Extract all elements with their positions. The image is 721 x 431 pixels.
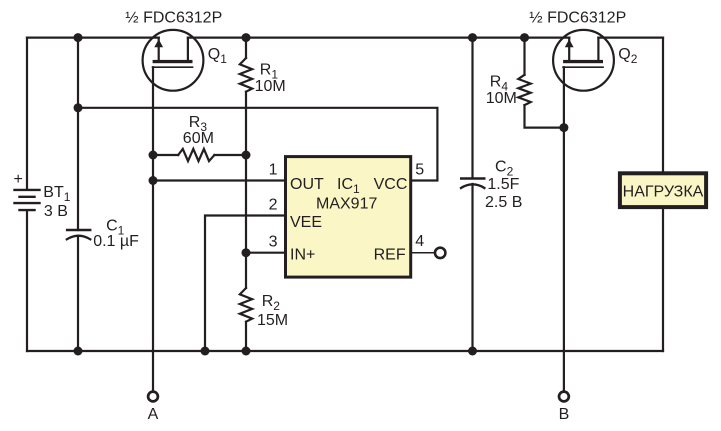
wire VCC feed rail <box>78 108 437 181</box>
transistor Q2 source line <box>568 38 570 60</box>
wire left rail upper <box>26 38 28 190</box>
wire IN+ pin3 <box>246 252 285 254</box>
wire R3 left lead <box>153 154 178 156</box>
svg-text:1: 1 <box>269 162 278 179</box>
svg-text:НАГРУЗКА: НАГРУЗКА <box>623 183 704 200</box>
svg-text:B: B <box>559 406 570 423</box>
wire R1R3 junction down to IN+ <box>245 155 247 253</box>
svg-text:IN+: IN+ <box>290 246 315 263</box>
wire top rail middle segment <box>188 36 569 38</box>
junction R4 Q2 gate <box>559 123 568 132</box>
capacitor C1 top plate <box>67 229 90 232</box>
svg-text:BT1: BT1 <box>43 184 70 204</box>
terminal A circle <box>148 392 158 402</box>
wire bottom rail <box>27 350 663 352</box>
capacitor C1 curved plate <box>67 236 91 240</box>
wire VEE pin2 <box>205 216 285 352</box>
svg-text:2: 2 <box>269 197 278 214</box>
junction bottom rail VEE <box>201 347 210 356</box>
svg-text:REF: REF <box>374 246 406 263</box>
wire load bottom to rail <box>662 209 664 351</box>
wire R1 top lead <box>245 38 247 58</box>
wire top rail right segment <box>598 36 663 38</box>
wire R1 bottom to R3 junction <box>245 92 247 155</box>
wire R2 top lead <box>245 253 247 288</box>
battery BT1 plate1 long <box>15 189 40 191</box>
junction R3 left gate line <box>149 151 158 160</box>
svg-text:60M: 60M <box>183 130 214 147</box>
junction bottom rail R2 <box>242 347 251 356</box>
battery BT1 plate3 long <box>15 202 40 204</box>
wire OUT pin1 <box>153 179 285 181</box>
junction bottom rail C2 <box>468 347 477 356</box>
svg-text:½ FDC6312P: ½ FDC6312P <box>125 10 222 27</box>
wire C2 column lower <box>471 184 473 351</box>
transistor Q2 body circle <box>553 30 614 91</box>
transistor Q1 body circle <box>143 30 204 91</box>
transistor Q2 drain line <box>597 38 599 60</box>
svg-text:3 В: 3 В <box>44 203 68 220</box>
resistor R4 <box>518 75 530 105</box>
terminal B circle <box>559 392 569 402</box>
wire Q2 gate drop to B <box>563 67 565 391</box>
transistor Q1 gate line <box>153 66 193 68</box>
svg-text:2.5 В: 2.5 В <box>485 194 522 211</box>
junction OUT gate line <box>149 176 158 185</box>
wire right drop to load <box>662 38 664 172</box>
junction top rail R4 <box>520 33 529 42</box>
transistor Q2 channel bar <box>563 60 603 63</box>
resistor R2 <box>240 288 252 322</box>
wire R4 top lead <box>523 38 525 75</box>
junction VCC rail C1 <box>74 103 83 112</box>
battery BT1 plate2 short <box>20 196 35 198</box>
wire left rail lower <box>26 210 28 351</box>
junction IN+ R2 <box>242 248 251 257</box>
wire R4 bottom lead to Q2 gate <box>525 105 564 128</box>
resistor R1 <box>240 58 252 92</box>
junction top rail C2 <box>468 33 477 42</box>
svg-text:+: + <box>14 171 23 188</box>
transistor Q1 source line <box>158 38 160 60</box>
svg-text:½ FDC6312P: ½ FDC6312P <box>529 10 626 27</box>
transistor Q1 source arrow <box>154 39 163 47</box>
svg-text:VEE: VEE <box>290 214 322 231</box>
junction R3 right R1 <box>242 151 251 160</box>
svg-text:Q2: Q2 <box>618 46 637 66</box>
svg-text:15M: 15M <box>257 312 288 329</box>
wire R3 right lead <box>214 154 246 156</box>
svg-text:5: 5 <box>415 162 424 179</box>
svg-text:10M: 10M <box>255 78 286 95</box>
op-amp IC1 body box <box>286 157 411 278</box>
svg-text:R2: R2 <box>262 293 281 313</box>
wire REF pin4 <box>412 252 435 254</box>
transistor Q2 gate line <box>563 66 603 68</box>
svg-text:3: 3 <box>269 234 278 251</box>
svg-text:4: 4 <box>415 233 424 250</box>
resistor R3 <box>178 149 214 161</box>
svg-text:Q1: Q1 <box>208 46 227 66</box>
svg-text:1.5F: 1.5F <box>487 176 519 193</box>
battery BT1 plate4 short <box>20 209 35 211</box>
svg-text:10M: 10M <box>486 90 517 107</box>
capacitor C2 top plate <box>461 177 484 180</box>
wire C2 column upper <box>471 38 473 178</box>
svg-text:0.1 µF: 0.1 µF <box>93 233 139 250</box>
junction bottom rail C1 <box>74 347 83 356</box>
transistor Q1 channel bar <box>153 60 193 63</box>
svg-text:OUT: OUT <box>290 176 324 193</box>
load box НАГРУЗКА <box>620 173 706 207</box>
junction top rail R1 <box>242 33 251 42</box>
wire Q1 gate drop to A <box>152 67 154 391</box>
transistor Q2 source arrow <box>565 39 574 47</box>
svg-text:VCC: VCC <box>374 176 408 193</box>
wire R2 bottom lead <box>245 322 247 351</box>
transistor Q1 drain line <box>187 38 189 60</box>
wire C1 column lower <box>77 236 79 351</box>
junction top rail C1 <box>74 33 83 42</box>
terminal REF circle <box>435 248 445 258</box>
svg-text:MAX917: MAX917 <box>316 196 377 213</box>
wire C1 column upper <box>77 38 79 230</box>
svg-text:A: A <box>148 406 159 423</box>
wire top rail left segment <box>27 36 159 38</box>
capacitor C2 curved plate <box>461 184 484 188</box>
